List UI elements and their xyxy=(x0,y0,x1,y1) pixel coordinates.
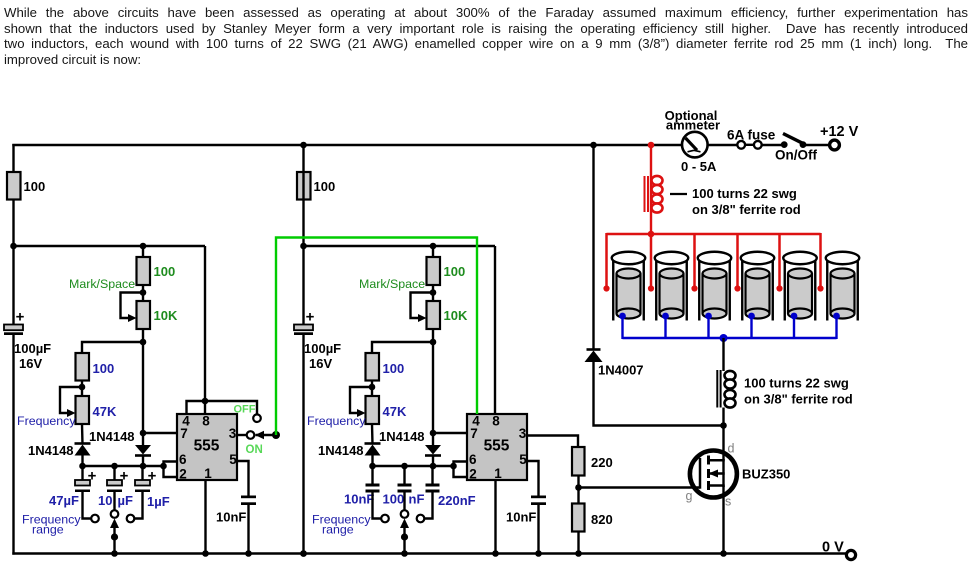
resistor 820 xyxy=(572,504,585,532)
electrolyser cell 5 outer tube xyxy=(784,258,786,321)
svg-text:3: 3 xyxy=(519,426,527,441)
wire - resistor to 47K pot (right osc) xyxy=(371,381,373,398)
capacitor C1 (right osc) xyxy=(366,484,380,487)
wire - 10nF to 0V rail (left osc) xyxy=(247,505,249,555)
node - green wire junction (left osc pin3) xyxy=(272,431,280,439)
electrolyser cell 4 outer tube xyxy=(741,258,743,321)
svg-text:6: 6 xyxy=(469,452,477,467)
wire - lead to capacitor C3 (right osc) xyxy=(431,466,433,484)
svg-text:1: 1 xyxy=(494,466,502,481)
wire - D1 to timing bus (right osc) xyxy=(371,456,373,468)
switch contact B frequency range (right osc) xyxy=(401,510,409,518)
svg-text:0 - 5A: 0 - 5A xyxy=(681,159,717,174)
node - rail junction (right osc) xyxy=(300,243,307,250)
wire - pin7 stub (right osc) xyxy=(433,432,467,434)
wire - red feed down to inductor L1 xyxy=(650,144,652,235)
wire - lead to capacitor C2 (left osc) xyxy=(113,466,115,481)
svg-text:100: 100 xyxy=(383,492,405,507)
svg-text:1N4148: 1N4148 xyxy=(318,443,364,458)
wire - blue drop cell 3 xyxy=(707,316,709,339)
Q1 gate bar xyxy=(699,458,702,489)
node - 47K top junction (right osc) xyxy=(369,384,376,391)
svg-text:1N4148: 1N4148 xyxy=(89,429,135,444)
svg-text:1N4007: 1N4007 xyxy=(598,363,644,378)
wire - pot wiper link (left osc) xyxy=(121,293,144,319)
svg-text:16V: 16V xyxy=(309,356,332,371)
svg-text:5: 5 xyxy=(519,452,527,467)
svg-text:100µF: 100µF xyxy=(304,341,341,356)
wire - D2 to timing bus (left osc) xyxy=(142,456,144,468)
wire - 47K wiper link (left osc) xyxy=(60,387,82,413)
wire - blue drop cell 2 xyxy=(664,316,666,339)
svg-text:Mark/Space: Mark/Space xyxy=(69,277,135,291)
switch contact A frequency range (left osc) xyxy=(91,515,99,523)
capacitor 100uF 16V electrolytic (right osc) xyxy=(294,325,313,331)
svg-text:BUZ350: BUZ350 xyxy=(742,467,790,482)
wire - timing bus (left osc) xyxy=(83,465,164,467)
node - 820 rail junction xyxy=(575,550,582,557)
wire - left supply rail lower xyxy=(12,335,14,555)
wire - middle supply rail lower xyxy=(302,335,304,555)
svg-text:10nF: 10nF xyxy=(216,510,246,525)
wire - resistor to pot (left osc) xyxy=(142,285,144,302)
svg-text:100µF: 100µF xyxy=(14,341,51,356)
svg-text:µF: µF xyxy=(118,493,133,508)
svg-text:1µF: 1µF xyxy=(147,494,170,509)
svg-text:0 V: 0 V xyxy=(822,540,844,556)
wire - 220 to 820 xyxy=(577,476,579,505)
node - pin8 junction (left osc) xyxy=(202,398,209,405)
wire - pin7 stub (left osc) xyxy=(143,432,177,434)
switch contact A frequency range (right osc) xyxy=(381,515,389,523)
electrolyser cell 2 inner tube xyxy=(660,274,684,314)
svg-text:100: 100 xyxy=(383,361,405,376)
svg-text:10nF: 10nF xyxy=(344,492,374,507)
wire - drop to pin8 (right osc) xyxy=(494,246,496,414)
svg-text:Frequency: Frequency xyxy=(17,414,76,428)
node - blue electrode contact cell 3 xyxy=(705,313,712,320)
node - wiper to 0V rail (left osc) xyxy=(111,550,118,557)
svg-text:on 3/8" ferrite rod: on 3/8" ferrite rod xyxy=(744,392,853,407)
resistor 100 supply dropper (right osc) xyxy=(297,172,311,200)
node - blue electrode contact cell 5 xyxy=(791,313,798,320)
node - blue electrode contact cell 1 xyxy=(619,313,626,320)
wire - pot to diode D1 (right osc) xyxy=(371,424,374,445)
wire - bottom 0V rail xyxy=(12,552,845,554)
svg-text:+: + xyxy=(16,309,25,326)
svg-text:1: 1 xyxy=(204,466,212,481)
wire - pin1 to 0V rail (right osc) xyxy=(494,480,496,555)
svg-text:2: 2 xyxy=(469,467,477,482)
wire - resistor to pot (right osc) xyxy=(432,285,434,302)
wire - gate drive from divider xyxy=(579,486,701,488)
svg-text:+: + xyxy=(148,468,157,485)
terminal 0V xyxy=(846,550,855,559)
svg-text:555: 555 xyxy=(484,438,510,455)
wire - C1 to range contact (right osc) xyxy=(373,492,381,519)
capacitor electrolytic C1 (left osc) xyxy=(75,480,90,486)
svg-text:OFF: OFF xyxy=(234,404,256,416)
switch contact C frequency range (right osc) xyxy=(417,515,425,523)
capacitor electrolytic C3 (left osc) xyxy=(135,480,150,486)
wire - pin1 to 0V rail (left osc) xyxy=(204,480,206,555)
wire - red drop to cell 6 xyxy=(819,233,822,287)
node - blue electrode contact cell 6 xyxy=(833,313,840,320)
wire - blue drop cell 6 xyxy=(835,316,837,339)
wire - pot bottom to branch (right osc) xyxy=(432,329,434,343)
node - blue electrode contact cell 2 xyxy=(662,313,669,320)
node - middle rail bottom rail junction xyxy=(300,550,307,557)
diode 1N4148 D1 (left osc) xyxy=(75,442,91,445)
svg-text:ON: ON xyxy=(246,444,263,456)
svg-text:range: range xyxy=(32,523,64,537)
wire - pin3 stub (left osc) xyxy=(237,434,247,436)
svg-text:+12 V: +12 V xyxy=(820,124,859,140)
electrolyser cell 5 inner tube xyxy=(788,274,812,314)
svg-text:7: 7 xyxy=(180,426,188,441)
inductor L2 100 turns (black) xyxy=(716,370,718,408)
capacitor electrolytic C2 (left osc) xyxy=(107,480,122,486)
svg-text:10K: 10K xyxy=(444,308,468,323)
svg-text:100: 100 xyxy=(24,179,46,194)
wire - lead to capacitor C1 (right osc) xyxy=(371,466,373,484)
Q1 internal vertical link xyxy=(722,459,724,487)
electrolyser cell 6 inner tube xyxy=(831,274,855,314)
svg-text:16V: 16V xyxy=(19,356,42,371)
svg-text:g: g xyxy=(686,489,693,503)
wire - down to 1N4007 xyxy=(592,145,594,350)
node - red electrode contact cell 6 xyxy=(817,285,823,291)
node - red electrode contact cell 4 xyxy=(734,285,740,291)
switch wiper frequency range (left osc) xyxy=(110,519,119,529)
switch contact C frequency range (left osc) xyxy=(127,515,135,523)
svg-text:8: 8 xyxy=(202,414,210,429)
wire - green control link pin3(left) to pin4(right) xyxy=(276,238,477,436)
Q1 channel segments xyxy=(707,456,710,465)
node - 1N4007 branch on top rail xyxy=(590,142,597,149)
svg-text:10nF: 10nF xyxy=(506,510,536,525)
electrolyser cell 6 outer tube xyxy=(826,258,828,321)
svg-text:100: 100 xyxy=(154,264,176,279)
node - pin1 rail junction (right osc) xyxy=(492,550,499,557)
wire - switch pole to green node (left osc) xyxy=(256,434,277,436)
resistor 220 xyxy=(572,447,585,476)
node - blue bus junction to L2 xyxy=(720,334,728,342)
wire - C3 to range contact (right osc) xyxy=(425,492,433,519)
svg-text:220nF: 220nF xyxy=(438,493,476,508)
wire - source lead to 0V rail xyxy=(722,486,724,555)
wire - top supply rail +12V xyxy=(12,144,682,146)
capacitor C3 (right osc) xyxy=(426,484,440,487)
svg-text:7: 7 xyxy=(470,426,478,441)
wire - pin5 to 10nF (left osc) xyxy=(237,461,249,496)
svg-text:10K: 10K xyxy=(154,308,178,323)
wire - blue drop cell 1 xyxy=(621,316,623,339)
wire - pot bottom to branch (left osc) xyxy=(142,329,144,343)
svg-text:s: s xyxy=(725,495,731,509)
resistor 100 supply dropper (left osc) xyxy=(7,172,21,200)
svg-text:d: d xyxy=(728,442,735,456)
node - wiper to 0V rail (right osc) xyxy=(401,550,408,557)
electrolyser cell 2 outer tube xyxy=(655,258,657,321)
Q1 internal drain bar xyxy=(709,459,725,462)
svg-text:100: 100 xyxy=(93,361,115,376)
capacitor 10nF pin5 (left osc) xyxy=(241,496,256,499)
wire - left supply rail upper xyxy=(12,144,14,325)
wire - 1N4007 to drain node xyxy=(594,362,724,426)
svg-text:+: + xyxy=(120,468,129,485)
node - pin1 rail junction (left osc) xyxy=(202,550,209,557)
wire - to OFF contact (left osc) xyxy=(205,401,257,414)
wire - C2 to range contact (right osc) xyxy=(403,492,405,510)
potentiometer 10K mark/space (right osc) xyxy=(427,301,441,329)
resistor 100 mark/space (right osc) xyxy=(427,257,441,285)
wire - branch to frequency resistor (left osc) xyxy=(82,342,143,354)
switch On/Off xyxy=(781,141,788,148)
wire - blue drop cell 4 xyxy=(750,316,752,339)
node - mark/space branch junction (left osc) xyxy=(140,243,147,250)
wire - lead to capacitor C2 (right osc) xyxy=(403,466,405,484)
electrolyser cell 3 inner tube xyxy=(703,274,727,314)
svg-text:100: 100 xyxy=(444,264,466,279)
node - pin7 diode junction (right osc) xyxy=(430,430,437,437)
node - 10nF rail junction (right osc) xyxy=(535,550,542,557)
wire - 47K wiper link (right osc) xyxy=(350,387,372,413)
wire - timing bus (right osc) xyxy=(373,465,454,467)
wire - L2 to drain node xyxy=(722,408,724,427)
svg-text:220: 220 xyxy=(591,455,613,470)
wire - C3 to range contact (left osc) xyxy=(135,492,143,519)
node - pot bottom junction (right osc) xyxy=(430,339,437,346)
svg-text:ammeter: ammeter xyxy=(666,118,720,133)
paragraph text xyxy=(4,5,968,67)
wire - section supply bus (right osc) xyxy=(304,245,496,247)
capacitor 10nF pin5 (right osc) xyxy=(531,496,546,499)
svg-text:nF: nF xyxy=(409,492,425,507)
wire - red drop to cell 4 xyxy=(736,233,739,287)
wire - red drop to cell 1 xyxy=(605,233,608,287)
wire - lead to capacitor C1 (left osc) xyxy=(81,466,83,481)
potentiometer 47K frequency (left osc) xyxy=(76,396,90,424)
wire - blue bus to inductor L2 xyxy=(722,338,724,371)
node - red feed on top rail xyxy=(648,142,655,149)
node - red electrode contact cell 3 xyxy=(691,285,697,291)
Q1 substrate arrow xyxy=(710,472,725,475)
wire - red drop to cell 5 xyxy=(778,233,781,287)
label line for L1 xyxy=(670,193,687,195)
node - pot top junction (left osc) xyxy=(140,289,147,296)
svg-text:5: 5 xyxy=(229,452,237,467)
node - divider junction xyxy=(575,484,582,491)
svg-text:100: 100 xyxy=(314,179,336,194)
wire - down to diode D2 (right osc) xyxy=(432,342,434,446)
svg-text:on 3/8" ferrite rod: on 3/8" ferrite rod xyxy=(692,202,801,217)
wire - drop to pin8 (left osc) xyxy=(204,246,206,401)
electrolyser cell 4 inner tube xyxy=(746,274,770,314)
svg-text:3: 3 xyxy=(229,426,237,441)
node - junction middle rail to top rail xyxy=(300,142,307,149)
node - red electrode contact cell 1 xyxy=(603,285,609,291)
svg-text:100 turns 22 swg: 100 turns 22 swg xyxy=(744,376,849,391)
svg-text:555: 555 xyxy=(194,438,220,455)
wire - resistor to 47K pot (left osc) xyxy=(81,381,83,398)
node - red electrode contact cell 2 xyxy=(648,285,654,291)
svg-text:47K: 47K xyxy=(383,404,407,419)
wire - branch to frequency resistor (right osc) xyxy=(372,342,433,354)
terminal +12V xyxy=(830,140,840,150)
wire - red drop to cell 3 xyxy=(693,233,696,287)
resistor 100 mark/space (left osc) xyxy=(137,257,151,285)
switch wiper frequency range (right osc) xyxy=(400,519,409,529)
wire - pin6/pin2 tie (left osc) xyxy=(164,462,178,478)
wire - D2 to timing bus (right osc) xyxy=(432,456,434,468)
wire - pin5 to 10nF (right osc) xyxy=(527,461,539,496)
switch contact OFF (left osc) xyxy=(253,414,261,422)
wire - section supply bus (left osc) xyxy=(14,245,206,247)
svg-text:On/Off: On/Off xyxy=(775,148,817,163)
svg-text:2: 2 xyxy=(179,467,187,482)
capacitor 100uF 16V electrolytic (left osc) xyxy=(4,325,23,331)
diode 1N4148 D2 (left osc) xyxy=(135,445,151,455)
wire - fuse to switch xyxy=(762,144,781,146)
svg-text:8: 8 xyxy=(492,414,500,429)
diode 1N4007 xyxy=(587,348,601,351)
svg-text:47K: 47K xyxy=(93,404,117,419)
svg-text:1N4148: 1N4148 xyxy=(28,443,74,458)
wire - red anode bus xyxy=(607,233,821,236)
wire - D1 to timing bus (left osc) xyxy=(81,456,83,468)
electrolyser cell 1 outer tube xyxy=(612,258,614,321)
node - source rail junction xyxy=(720,550,727,557)
svg-text:range: range xyxy=(322,523,354,537)
node - blue electrode contact cell 4 xyxy=(748,313,755,320)
wire - middle supply rail upper xyxy=(302,144,304,325)
wire - pin8/pin4 top bracket (left osc) xyxy=(187,401,206,414)
capacitor C2 (right osc) xyxy=(398,484,412,487)
resistor 100 frequency (right osc) xyxy=(366,353,380,381)
wire - 820 to 0V rail xyxy=(577,532,579,555)
node - pin7 diode junction (left osc) xyxy=(140,430,147,437)
node - middle rail bottom junction (right osc) xyxy=(300,550,307,557)
svg-text:820: 820 xyxy=(591,512,613,527)
op-amp 555 timer IC (right osc) xyxy=(467,414,527,480)
wire - C1 to range contact (left osc) xyxy=(83,492,91,519)
node - 47K top junction (left osc) xyxy=(79,384,86,391)
svg-text:+: + xyxy=(306,309,315,326)
wire - drain lead xyxy=(722,426,724,461)
node - timing bus junctions (left osc) xyxy=(79,463,86,470)
diode 1N4148 D2 (right osc) xyxy=(425,445,441,455)
svg-text:47µF: 47µF xyxy=(49,493,79,508)
node - rail junction (left osc) xyxy=(10,243,17,250)
wire - pin3 of right 555 to divider xyxy=(527,436,578,449)
svg-text:6A fuse: 6A fuse xyxy=(727,128,776,143)
svg-text:Mark/Space: Mark/Space xyxy=(359,277,425,291)
node - red electrode contact cell 5 xyxy=(776,285,782,291)
diode 1N4148 D1 (right osc) xyxy=(365,442,381,445)
potentiometer 47K frequency (right osc) xyxy=(366,396,380,424)
wire - pot to diode D1 (left osc) xyxy=(81,424,84,445)
node - pot bottom junction (left osc) xyxy=(140,339,147,346)
svg-text:1N4148: 1N4148 xyxy=(379,429,425,444)
wire - ammeter to fuse xyxy=(708,144,738,146)
wire - blue cathode bus xyxy=(623,337,837,339)
potentiometer 10K mark/space (left osc) xyxy=(137,301,151,329)
transistor Q1 BUZ350 MOSFET xyxy=(690,451,737,498)
wire - switch to +12V terminal xyxy=(803,144,829,146)
node - red bus junction under L1 xyxy=(648,231,655,238)
node - pot top junction (right osc) xyxy=(430,289,437,296)
resistor 100 frequency (left osc) xyxy=(76,353,90,381)
svg-text:6: 6 xyxy=(179,452,187,467)
wire - into mark/space resistor (left osc) xyxy=(142,246,144,258)
wire - into mark/space resistor (right osc) xyxy=(432,246,434,258)
electrolyser cell 3 outer tube xyxy=(698,258,700,321)
electrolyser cell 1 inner tube xyxy=(617,274,641,314)
wire - pin6/pin2 tie (right osc) xyxy=(454,462,468,478)
op-amp 555 timer IC (left osc) xyxy=(177,414,237,480)
node - mark/space branch junction (right osc) xyxy=(430,243,437,250)
fuse 6A xyxy=(737,141,745,149)
wire - 10nF to 0V rail (right osc) xyxy=(537,505,539,555)
svg-text:+: + xyxy=(88,468,97,485)
node - timing bus junctions (right osc) xyxy=(369,463,376,470)
node - 10nF rail junction (left osc) xyxy=(245,550,252,557)
wire - down to diode D2 (left osc) xyxy=(142,342,144,446)
ammeter M1 0-5A xyxy=(682,132,708,158)
svg-text:10: 10 xyxy=(98,493,112,508)
wire - blue drop cell 5 xyxy=(793,316,795,339)
wire - pot wiper link (right osc) xyxy=(411,293,434,319)
switch contact B frequency range (left osc) xyxy=(111,510,119,518)
Q1 internal source bar xyxy=(709,484,725,487)
wire - C2 to range contact (left osc) xyxy=(113,492,115,510)
svg-text:Frequency: Frequency xyxy=(307,414,366,428)
switch contact ON (left osc) xyxy=(247,431,255,439)
inductor L1 100 turns (red) xyxy=(644,176,646,212)
wire - red drop to cell 2 xyxy=(650,233,653,287)
node - drain node junction xyxy=(720,422,727,429)
wire - lead to capacitor C3 (left osc) xyxy=(141,466,143,481)
svg-text:100 turns 22 swg: 100 turns 22 swg xyxy=(692,186,797,201)
